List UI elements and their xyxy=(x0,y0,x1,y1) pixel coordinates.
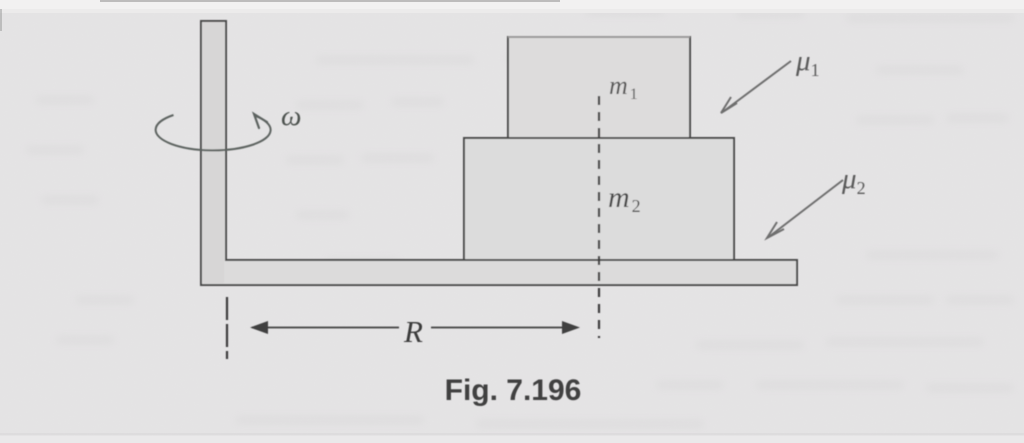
svg-text:R: R xyxy=(403,314,423,349)
block m1 xyxy=(508,37,690,138)
svg-text:ω: ω xyxy=(281,100,301,132)
mu1 arrow xyxy=(724,61,791,111)
block m2 xyxy=(464,138,734,260)
rod darker fill xyxy=(203,22,224,283)
L-shaped bracket (rod + platform) fill xyxy=(201,21,797,285)
mu2 arrow xyxy=(770,180,843,236)
R dimension arrow xyxy=(250,321,580,334)
tiny scan mark left edge xyxy=(0,9,2,31)
dashed center line xyxy=(598,96,600,338)
svg-text:Fig. 7.196: Fig. 7.196 xyxy=(445,374,582,407)
rotation arrow (ellipse arc) xyxy=(156,115,271,150)
m1 faint top edge xyxy=(508,36,690,38)
axis mark below rod xyxy=(226,297,228,359)
